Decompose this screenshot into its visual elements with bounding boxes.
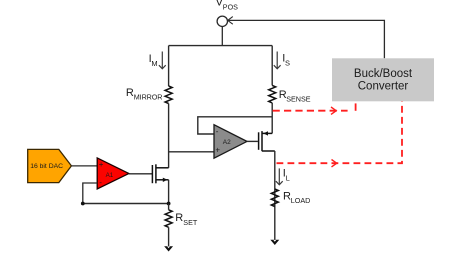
current arrow IS bbox=[274, 52, 281, 69]
red arrowhead on top sense line bbox=[331, 107, 336, 114]
arrow on Q2 drain (points into channel) bbox=[263, 131, 268, 135]
svg-text:L: L bbox=[286, 174, 290, 183]
svg-text:-: - bbox=[99, 178, 102, 187]
wire A2 output to Q2 gate bbox=[247, 140, 258, 142]
wire Q2 source down to RLOAD / ground bbox=[274, 151, 276, 241]
current label IL bbox=[283, 168, 290, 183]
red dashed sense line from node S to converter bbox=[273, 103, 356, 110]
op-amp A2 bbox=[214, 125, 247, 159]
svg-text:+: + bbox=[99, 160, 104, 169]
junction dot at A1 feedback bbox=[81, 202, 85, 206]
wire RSET node to resistor and resistor to ground bbox=[168, 204, 170, 248]
junction dot at RSET node bbox=[167, 202, 171, 206]
label RSENSE bbox=[279, 89, 311, 104]
wire A1 output to Q1 gate bbox=[129, 173, 152, 175]
svg-text:-: - bbox=[216, 127, 219, 136]
wire A1 inverting input from feedback node bbox=[83, 183, 97, 204]
wire VPOS circle down to bus bbox=[221, 27, 223, 46]
svg-text:SET: SET bbox=[183, 218, 198, 227]
svg-text:LOAD: LOAD bbox=[291, 196, 311, 205]
wire feedback RSET node to A1 inverting branch bbox=[83, 203, 169, 205]
current label IS bbox=[282, 53, 290, 68]
red arrowhead on bottom sense line bbox=[332, 160, 337, 167]
resistor RSET bbox=[165, 210, 172, 227]
svg-text:A1: A1 bbox=[106, 172, 114, 179]
svg-text:+: + bbox=[215, 146, 220, 155]
transistor Q1 (left MOSFET) bbox=[152, 164, 168, 183]
wire RSENSE bottom to right MOSFET drain (node S) bbox=[271, 103, 273, 133]
power symbol VPOS (circle) bbox=[217, 16, 227, 26]
red dashed sense line from load node to converter bbox=[277, 101, 403, 163]
current arrow IL bbox=[276, 168, 283, 184]
wire bus down to RSENSE bbox=[271, 46, 273, 86]
wire bus down to RMIRROR bbox=[168, 46, 170, 86]
svg-text:16 bit DAC: 16 bit DAC bbox=[30, 163, 63, 170]
wire Q1 source down to RSET node bbox=[168, 180, 170, 204]
arrow on Q1 source (points out to wire) bbox=[163, 178, 168, 182]
current arrow IM bbox=[159, 52, 166, 69]
Buck/Boost Converter block bbox=[332, 58, 434, 101]
svg-text:A2: A2 bbox=[223, 139, 231, 146]
svg-text:S: S bbox=[285, 58, 290, 67]
ground (below RSET) bbox=[165, 247, 172, 251]
svg-text:M: M bbox=[151, 59, 157, 68]
wire feedback from node S to A2 inverting input bbox=[198, 117, 272, 134]
wire VPOS circle to converter top corner bbox=[228, 20, 385, 58]
wire DAC to A1 non-inverting input bbox=[71, 165, 97, 167]
resistor RLOAD bbox=[271, 189, 278, 206]
svg-text:R: R bbox=[126, 87, 134, 99]
op-amp A1 bbox=[97, 158, 129, 189]
node VPOS label bbox=[216, 0, 239, 12]
svg-text:MIRROR: MIRROR bbox=[134, 93, 163, 102]
resistor RSENSE bbox=[269, 85, 276, 103]
wire top bus bbox=[169, 45, 273, 47]
resistor RMIRROR bbox=[165, 86, 172, 104]
svg-text:R: R bbox=[283, 190, 291, 202]
label RSET bbox=[175, 212, 198, 227]
svg-text:R: R bbox=[175, 212, 183, 224]
wire RMIRROR node to A2 non-inverting input bbox=[169, 151, 214, 153]
svg-text:Converter: Converter bbox=[358, 81, 409, 93]
svg-text:SENSE: SENSE bbox=[286, 95, 311, 104]
svg-text:POS: POS bbox=[223, 3, 238, 12]
transistor Q2 (right MOSFET) bbox=[259, 131, 275, 151]
label RMIRROR bbox=[126, 87, 162, 102]
DAC block (16 bit DAC) bbox=[28, 149, 72, 182]
current label IM bbox=[149, 53, 158, 68]
wire RMIRROR bottom to left MOSFET drain bbox=[168, 104, 170, 168]
ground (below RLOAD) bbox=[271, 240, 278, 244]
label RLOAD bbox=[283, 190, 310, 205]
svg-text:Buck/Boost: Buck/Boost bbox=[354, 68, 413, 80]
arrowhead into VPOS circle bbox=[228, 17, 233, 25]
